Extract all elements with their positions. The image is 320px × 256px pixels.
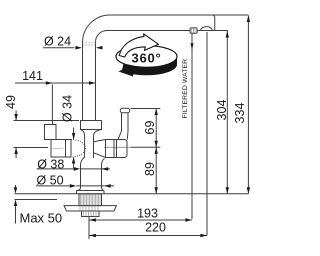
svg-text:360°: 360° (131, 50, 161, 65)
svg-text:Ø 34: Ø 34 (61, 95, 75, 122)
svg-text:141: 141 (22, 69, 43, 83)
svg-text:89: 89 (143, 162, 157, 176)
svg-text:69: 69 (143, 121, 157, 135)
svg-text:FILTERED WATER: FILTERED WATER (182, 59, 189, 118)
svg-text:Max 50: Max 50 (20, 211, 63, 226)
svg-text:193: 193 (137, 206, 158, 220)
svg-text:Ø 50: Ø 50 (36, 173, 63, 187)
svg-text:49: 49 (4, 95, 18, 109)
svg-text:334: 334 (233, 103, 247, 124)
svg-text:220: 220 (145, 221, 166, 235)
svg-text:Ø 24: Ø 24 (44, 34, 71, 48)
